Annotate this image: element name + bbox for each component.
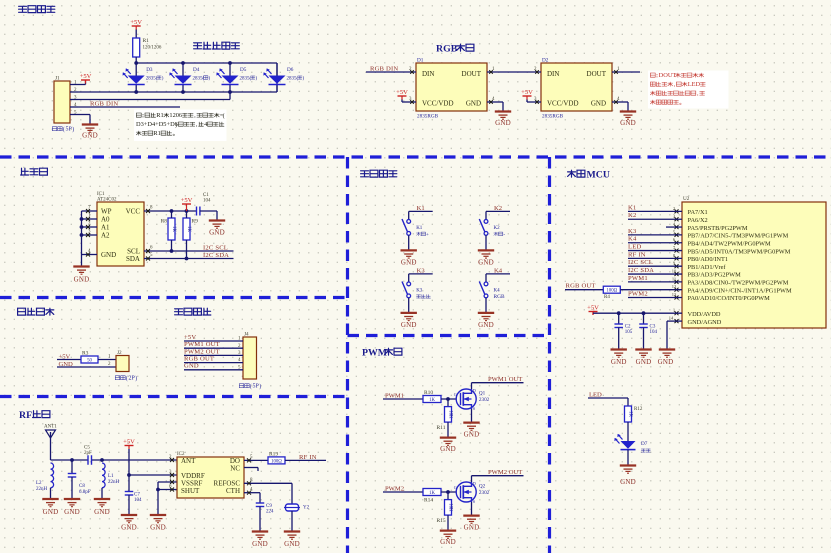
svg-text:PB4/AD4/TW2PWM/PG0PWM: PB4/AD4/TW2PWM/PG0PWM [688,240,772,247]
svg-text:GND: GND [284,540,300,548]
svg-text:C2: C2 [625,325,631,330]
svg-text:GND: GND [252,540,268,548]
svg-text:RGB OUT: RGB OUT [566,283,596,290]
svg-text:PB5/AD5/INT0A/TM3PWM/PG0PWM: PB5/AD5/INT0A/TM3PWM/PG0PWM [688,248,791,255]
svg-text:R1: R1 [143,38,150,44]
svg-text:1K: 1K [429,398,435,403]
svg-text:GND: GND [464,431,480,439]
svg-text:Q1: Q1 [479,391,486,397]
svg-text:6.8pF: 6.8pF [79,490,91,495]
svg-text:C5: C5 [84,446,90,451]
svg-text:GND: GND [478,321,494,329]
svg-text:K3: K3 [628,228,637,235]
svg-text:2835(: 2835( [146,77,158,82]
svg-text:120/1206: 120/1206 [143,46,162,51]
svg-text:WP: WP [101,208,112,216]
svg-text:R19: R19 [269,452,278,458]
svg-text:C1: C1 [203,193,209,198]
svg-text:+: + [426,233,429,238]
svg-text:50: 50 [87,359,92,364]
svg-text:224: 224 [266,510,274,515]
svg-text:R15: R15 [437,518,446,524]
svg-text:2835RGB: 2835RGB [417,114,439,120]
svg-text:K1: K1 [628,204,636,211]
svg-text:K4: K4 [628,236,637,243]
svg-text:MCU: MCU [587,170,610,181]
svg-text:PB7/AD7/CIN5-/TM3PWM/PG1PWM: PB7/AD7/CIN5-/TM3PWM/PG1PWM [688,233,789,240]
svg-text:DOUT: DOUT [587,70,607,78]
svg-text:IC1: IC1 [97,192,105,197]
svg-text:GND: GND [591,100,606,108]
svg-text:D3+D4+D5+D6: D3+D4+D5+D6 [136,121,178,128]
svg-text:C3: C3 [650,325,656,330]
svg-text:D4: D4 [193,67,200,73]
svg-text:PWM2 OUT: PWM2 OUT [488,469,522,476]
svg-text:): ) [135,375,137,382]
svg-text:U2: U2 [683,196,690,202]
svg-text:CTH: CTH [226,487,240,495]
svg-text:PWM1: PWM1 [385,392,404,399]
svg-text:GND: GND [401,321,417,329]
svg-text:DOUT: DOUT [659,72,677,79]
svg-text:GND: GND [184,363,199,370]
svg-text:Y2: Y2 [303,506,310,511]
svg-text:+5V: +5V [184,334,196,341]
svg-text:I2C SDA: I2C SDA [203,252,229,259]
svg-text:ANT1: ANT1 [44,425,57,430]
svg-text:R4: R4 [604,295,610,300]
svg-text:J4: J4 [244,332,249,338]
svg-text:100Ω: 100Ω [606,289,617,294]
svg-text:R9: R9 [192,219,199,225]
svg-text:2835RGB: 2835RGB [542,114,564,120]
svg-text:GND: GND [94,508,110,516]
svg-text:GND: GND [636,358,652,366]
svg-text:LED: LED [589,391,602,398]
svg-text:1K: 1K [171,226,176,232]
svg-text:Q2: Q2 [479,484,486,490]
svg-text:GND: GND [620,478,636,486]
svg-text:R8: R8 [161,219,168,225]
svg-text:G: G [454,485,457,490]
svg-text:A2: A2 [101,232,110,240]
svg-text:PWM1 OUT: PWM1 OUT [488,376,522,383]
svg-text:PB0/AD0/INT1: PB0/AD0/INT1 [688,256,729,263]
svg-text:GND: GND [401,258,417,266]
svg-text:2302: 2302 [479,490,490,496]
svg-text:GND: GND [82,132,98,140]
svg-text:GND: GND [43,508,59,516]
svg-text:100Ω: 100Ω [271,459,282,464]
svg-text:+5V: +5V [181,197,193,204]
svg-text:D2: D2 [542,58,549,64]
svg-text:I2C SCL: I2C SCL [628,259,653,266]
svg-text:GND: GND [658,358,674,366]
svg-text:PWM: PWM [362,348,387,359]
svg-text:+5V: +5V [396,89,408,96]
svg-text:AT24C02: AT24C02 [97,198,117,203]
svg-text:R10: R10 [424,390,433,396]
svg-text:D6: D6 [287,67,294,73]
svg-text:LED: LED [688,81,701,88]
svg-text:K3: K3 [416,288,423,293]
svg-text:): ) [72,126,74,133]
svg-text:ANT: ANT [181,457,196,465]
svg-text:GND/AGND: GND/AGND [688,319,722,326]
svg-text:2pF: 2pF [84,451,92,456]
svg-text:VCC/VDD: VCC/VDD [547,100,579,108]
svg-text:VCC/VDD: VCC/VDD [422,100,454,108]
svg-text:DIN: DIN [422,70,434,78]
svg-text:GND: GND [611,358,627,366]
svg-text:13: 13 [672,292,677,297]
svg-text:PWM2: PWM2 [628,291,648,298]
svg-text:VDD/AVDD: VDD/AVDD [688,311,721,318]
svg-text:DIN: DIN [547,70,559,78]
svg-text:I2C SDA: I2C SDA [628,267,654,274]
svg-text:DOUT: DOUT [462,70,482,78]
svg-text:1K: 1K [429,491,435,496]
svg-text:K1: K1 [416,226,423,231]
svg-text:GND: GND [440,445,456,453]
svg-text:D: D [473,388,476,393]
svg-text:22nH: 22nH [36,487,48,492]
svg-text:GND: GND [464,524,480,532]
svg-text:1K: 1K [186,226,191,232]
svg-text:PA0/AD10/CO/INT0/PG0PWM: PA0/AD10/CO/INT0/PG0PWM [688,295,771,302]
svg-text:10K: 10K [448,410,453,419]
svg-text:GND: GND [150,524,166,532]
svg-text:105: 105 [625,330,633,335]
svg-text:C8: C8 [79,484,85,489]
svg-text:RF IN: RF IN [628,251,646,258]
svg-text:G: G [454,392,457,397]
svg-text:L1: L1 [108,474,114,479]
svg-text:PWM2 OUT: PWM2 OUT [184,348,220,355]
svg-text:K2: K2 [628,212,636,219]
svg-text:14: 14 [669,316,674,321]
svg-text:RF IN: RF IN [299,454,317,461]
svg-text:D1: D1 [417,58,424,64]
svg-text:R3: R3 [82,351,89,357]
svg-text:104: 104 [203,199,211,204]
svg-text:J2: J2 [117,350,122,356]
svg-text:+5V: +5V [521,89,533,96]
svg-text:K4: K4 [494,288,501,293]
svg-text:C9: C9 [266,504,272,509]
svg-text:1206: 1206 [169,112,182,119]
svg-text:GND: GND [466,100,481,108]
svg-text:PWM1: PWM1 [628,275,648,282]
svg-text:K2: K2 [494,226,501,231]
svg-text:D3: D3 [146,67,153,73]
svg-text:+5V: +5V [80,73,92,80]
svg-text:PA3/AD8/CIN0-/TW2PWM/PG2PWM: PA3/AD8/CIN0-/TW2PWM/PG2PWM [688,280,789,287]
svg-text:RF: RF [19,410,32,421]
svg-text:RGB: RGB [494,294,505,300]
svg-text:+5V: +5V [587,305,599,312]
svg-text:22nH: 22nH [108,480,120,485]
svg-text:2302: 2302 [479,397,490,403]
svg-text:RGB: RGB [436,44,458,55]
svg-text:RGB OUT: RGB OUT [184,356,214,363]
svg-text:R12: R12 [634,407,643,412]
svg-text:10: 10 [672,268,677,273]
svg-text:PA4/AD9/CIN+/CIN-/INT1A/PG1PWM: PA4/AD9/CIN+/CIN-/INT1A/PG1PWM [688,287,793,294]
svg-text:104: 104 [134,498,142,503]
svg-text:LED: LED [628,244,641,251]
svg-text:SHUT: SHUT [181,487,200,495]
svg-text:-: - [503,232,505,238]
svg-text:+5V: +5V [123,439,135,446]
svg-text:VCC: VCC [126,208,141,216]
svg-text:1K: 1K [628,411,633,417]
svg-text:L2: L2 [36,481,42,486]
svg-text:RGB DIN: RGB DIN [90,100,118,107]
svg-text:GND: GND [101,251,116,259]
svg-text:PB3/AD3/PG2PWM: PB3/AD3/PG2PWM [688,272,742,279]
svg-text:PA6/X2: PA6/X2 [688,217,708,224]
svg-text:PWM2: PWM2 [385,485,404,492]
svg-text:GND: GND [121,524,137,532]
svg-text:R1: R1 [156,112,163,119]
svg-text:PWM1 OUT: PWM1 OUT [184,341,220,348]
svg-text:PA5/PRSTB/PG2PWM: PA5/PRSTB/PG2PWM [688,225,748,232]
svg-text:J1: J1 [55,76,60,82]
svg-text:SDA: SDA [126,255,140,263]
svg-text:GND: GND [620,119,636,127]
svg-text:R1: R1 [153,130,160,137]
svg-text:): ) [175,122,177,129]
svg-text:R14: R14 [424,498,433,504]
svg-text:GND: GND [209,229,225,237]
svg-text:D: D [473,481,476,486]
svg-text:I2C SCL: I2C SCL [203,244,228,251]
svg-text:NC: NC [230,465,240,473]
svg-text:GND: GND [64,508,80,516]
svg-text:C7: C7 [134,493,140,498]
svg-text:GND: GND [495,119,511,127]
svg-text:R11: R11 [437,425,446,431]
svg-text:2835(: 2835( [287,77,299,82]
svg-text:PB1/AD1/Vref: PB1/AD1/Vref [688,264,727,271]
svg-text:GND: GND [478,258,494,266]
svg-text:+5V: +5V [130,19,142,26]
svg-text:(: ( [223,113,225,120]
svg-text:D5: D5 [240,67,247,73]
svg-text:D7: D7 [641,441,648,447]
svg-text:RGB DIN: RGB DIN [370,65,398,72]
svg-text:A1: A1 [101,224,110,232]
svg-text:104: 104 [650,330,658,335]
svg-text:10K: 10K [448,503,453,512]
svg-text:PA7/X1: PA7/X1 [688,209,708,216]
svg-text:GND: GND [440,538,456,546]
svg-text:GND: GND [74,276,90,284]
svg-text:A0: A0 [101,216,110,224]
svg-text:2835(: 2835( [240,77,252,82]
svg-text:2835(: 2835( [193,77,205,82]
svg-text:): ) [259,383,261,390]
